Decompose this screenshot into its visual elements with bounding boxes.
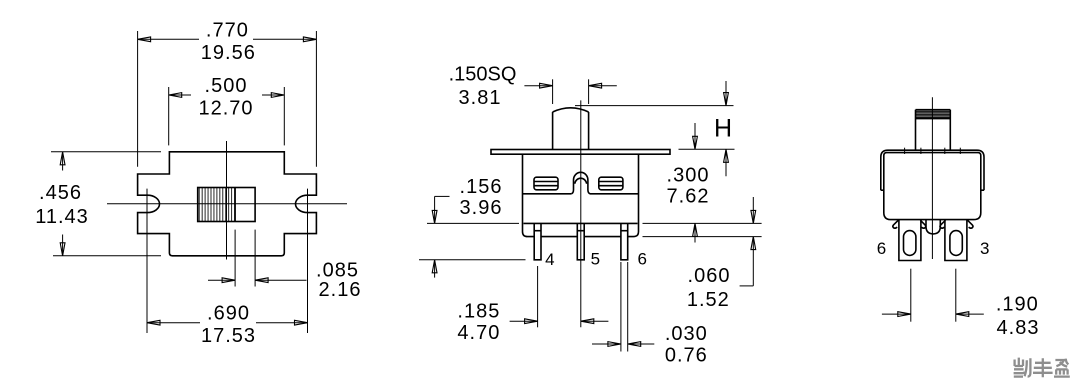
svg-text:.060: .060	[688, 265, 731, 287]
switch body top view outline	[138, 152, 317, 256]
dimension .690 17.53 hole spacing	[147, 189, 308, 348]
seat extension right	[643, 222, 762, 224]
dimension .156 3.96 pin length	[419, 176, 526, 278]
slider knob hatched top view	[198, 188, 255, 222]
pin label 5	[591, 250, 600, 269]
dimension H actuator height	[575, 81, 735, 176]
mounting flange front view	[491, 150, 670, 155]
center dome detent	[571, 172, 590, 194]
vertical centerline left view	[226, 141, 228, 260]
svg-text:12.70: 12.70	[198, 98, 253, 120]
pin 4 front view	[534, 223, 541, 259]
svg-text:6: 6	[637, 250, 646, 269]
actuator knob front view	[553, 108, 589, 150]
pin 3 side view	[945, 220, 967, 261]
body parting line	[523, 193, 639, 195]
retention barb outer left	[893, 220, 898, 228]
dimension .456 11.43 height	[35, 152, 161, 256]
dimension .190 4.83 pin spacing	[882, 269, 1040, 339]
pin label 3 side	[980, 239, 989, 258]
svg-text:3: 3	[980, 239, 989, 258]
pin 6 side view	[899, 220, 921, 261]
pin 6 front view	[621, 223, 628, 259]
dimension .185 4.70 pin pitch	[457, 266, 608, 344]
svg-text:.690: .690	[207, 303, 250, 325]
svg-text:.456: .456	[39, 182, 82, 204]
right contact slot	[599, 177, 623, 190]
pin label 6 side	[877, 239, 886, 258]
svg-text:3.81: 3.81	[459, 87, 502, 109]
svg-text:2.16: 2.16	[319, 279, 362, 301]
seat line	[524, 222, 638, 224]
svg-text:.770: .770	[206, 19, 249, 41]
dimension .150SQ 3.81 actuator	[449, 64, 617, 109]
pin label 4	[545, 250, 554, 269]
svg-text:.156: .156	[460, 176, 503, 198]
horizontal centerline left view	[107, 203, 347, 205]
svg-text:19.56: 19.56	[201, 42, 256, 64]
dimension .060 1.52 standoff	[687, 197, 756, 311]
retention barb inner right	[940, 220, 945, 228]
center mounting tab side view	[926, 220, 940, 234]
svg-text:11.43: 11.43	[35, 206, 89, 228]
dimension .770 19.56 width	[138, 19, 317, 167]
actuator knob side view	[916, 110, 951, 151]
svg-text:1.52: 1.52	[687, 289, 730, 311]
pin 5 front view	[577, 223, 584, 259]
svg-text:.190: .190	[996, 294, 1039, 316]
dimension .500 12.70 width	[169, 75, 285, 145]
svg-text:.500: .500	[205, 75, 248, 97]
svg-text:6: 6	[877, 239, 886, 258]
svg-text:.185: .185	[457, 301, 500, 323]
svg-text:4: 4	[545, 250, 554, 269]
switch body front view	[523, 154, 639, 236]
watermark logo	[1014, 358, 1070, 378]
svg-text:17.53: 17.53	[201, 325, 256, 347]
svg-text:.030: .030	[665, 323, 708, 345]
svg-text:4.83: 4.83	[997, 317, 1040, 339]
left contact slot	[534, 177, 558, 190]
slider knob edge top view	[234, 188, 236, 222]
outer frame side view	[881, 150, 984, 190]
pin label 6	[637, 250, 646, 269]
svg-text:3.96: 3.96	[460, 197, 503, 219]
dimension .030 0.76 pin width	[592, 262, 708, 367]
svg-text:.150SQ: .150SQ	[449, 64, 517, 86]
svg-text:5: 5	[591, 250, 600, 269]
vertical centerline side view	[931, 97, 933, 259]
svg-text:H: H	[714, 115, 732, 143]
base extension right	[643, 236, 762, 238]
svg-text:4.70: 4.70	[457, 322, 500, 344]
retention barb inner left	[920, 220, 925, 228]
dimension .085 2.16 travel	[208, 230, 361, 301]
retention barb outer right	[968, 220, 973, 228]
dimension .300 7.62 body height	[667, 123, 710, 243]
svg-text:0.76: 0.76	[665, 345, 708, 367]
frame top ticks	[905, 148, 961, 154]
inner body side view	[884, 153, 981, 220]
svg-text:.300: .300	[667, 164, 710, 186]
vertical centerline front view	[580, 100, 582, 327]
svg-text:7.62: 7.62	[667, 185, 710, 207]
